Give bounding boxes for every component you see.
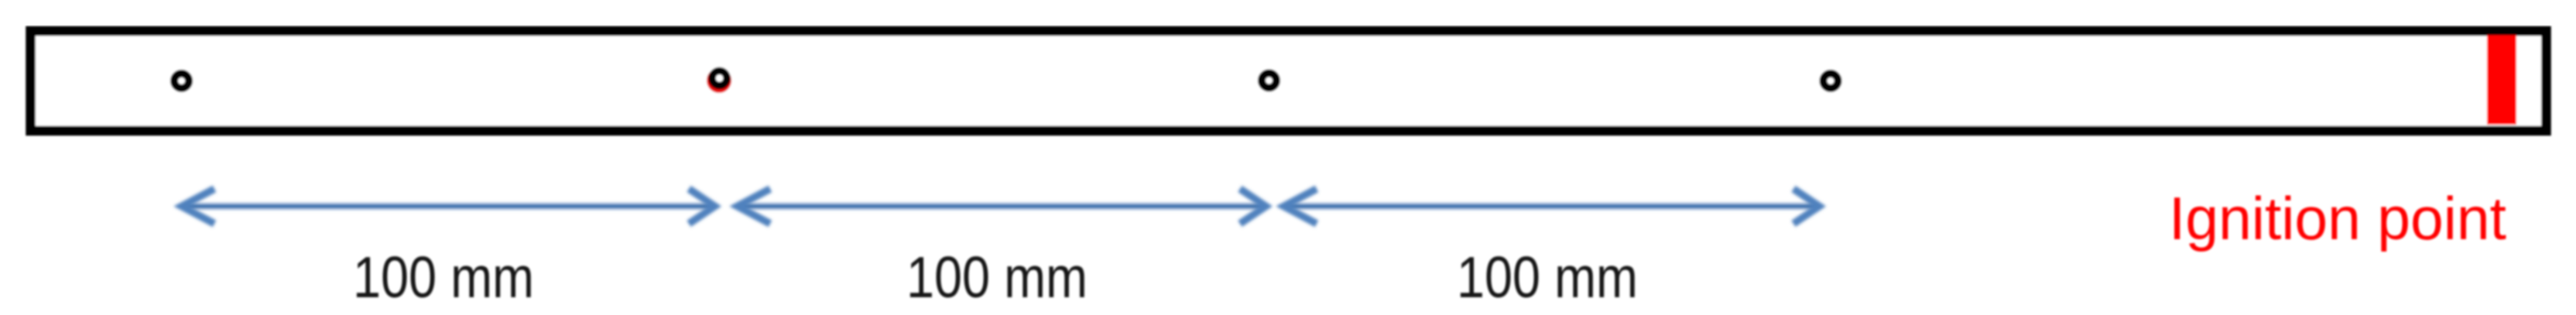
svg-text:100 mm: 100 mm <box>906 245 1088 310</box>
svg-text:Ignition point: Ignition point <box>2169 184 2506 252</box>
hole 2 <box>712 71 727 86</box>
hole 4 <box>1824 74 1838 88</box>
arrow 1 left head <box>182 189 215 224</box>
hole 1 <box>174 74 189 88</box>
arrow 2 right head <box>1240 189 1266 224</box>
svg-text:100 mm: 100 mm <box>1457 245 1638 310</box>
hole 3 <box>1262 74 1276 88</box>
arrow 1 shaft <box>184 204 714 209</box>
arrow 1 shaft halo <box>189 202 707 211</box>
dimension arrow 2 (double headed, 100 mm) <box>738 189 1266 224</box>
arrow 2 shaft halo <box>745 202 1258 211</box>
arrow 2 left head <box>738 189 771 224</box>
specimen bar (rectangle) <box>31 31 2547 131</box>
svg-text:100 mm: 100 mm <box>353 245 534 310</box>
dimension arrow 1 (double headed, 100 mm) <box>182 189 715 224</box>
arrow 3 right head <box>1793 189 1820 224</box>
hole 2 red halo <box>711 72 728 89</box>
arrow 3 shaft <box>1286 204 1818 209</box>
ignition strip (red) <box>2487 36 2516 125</box>
arrow 3 shaft halo <box>1291 202 1811 211</box>
arrow 2 shaft <box>739 204 1264 209</box>
dimension arrow 3 (double headed, 100 mm) <box>1284 189 1820 224</box>
arrow 1 right head <box>689 189 715 224</box>
arrow 3 left head <box>1284 189 1317 224</box>
